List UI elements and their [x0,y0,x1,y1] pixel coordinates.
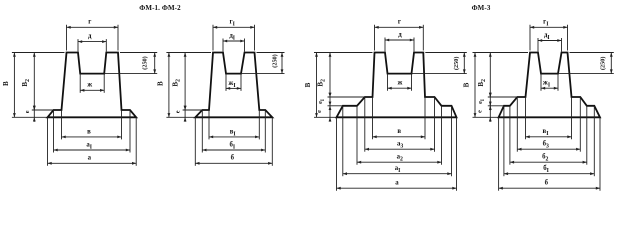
dimension ФМ-3-right В [474,53,477,118]
label е [316,110,323,113]
svg-text:е: е [175,110,182,113]
label В [2,81,10,86]
label (250) [600,57,607,70]
svg-text:а: а [395,180,399,187]
svg-text:В2: В2 [477,79,487,87]
label е [24,110,31,113]
svg-text:а: а [88,155,92,162]
extension lines [473,25,614,191]
dimension ФМ-3-left д [385,31,414,41]
dimension ФМ-3-right е [489,101,492,122]
dimension ФМ-3-right д [538,32,562,42]
label (250) [453,57,460,70]
dimension ФМ-2 ж [226,80,241,90]
dimension ФМ-3-right x1 [504,165,594,175]
svg-text:ж: ж [398,80,403,87]
dimension ФМ-1 В2 [33,53,36,111]
dimension ФМ-3-left x0 [337,180,457,190]
dimension ФМ-1 (250) [153,53,156,74]
svg-text:б2: б2 [542,154,548,163]
dimension ФМ-2 в [209,128,259,138]
label В2 [477,79,487,87]
label е [477,110,484,113]
svg-text:г: г [398,19,401,26]
label (250) [271,54,278,67]
svg-text:аI: аI [86,141,92,150]
svg-text:В: В [156,81,164,86]
dimension ФМ-3-left ж [388,80,412,90]
dimension ФМ-1 mid [54,141,131,151]
svg-text:д: д [398,31,402,38]
label (250) [142,56,149,69]
svg-text:вI: вI [543,128,550,137]
label В [463,82,471,87]
svg-text:гI: гI [543,19,549,28]
label В [156,81,164,86]
extension lines [314,25,467,191]
svg-text:В: В [2,81,10,86]
label В2 [21,79,31,87]
dimension ФМ-3-right г [530,19,568,29]
dimension ФМ-2 В2 [184,53,187,111]
dimension ФМ-2 В [168,53,171,118]
dimension ФМ-1 в [62,128,122,138]
dimension ФМ-3-left x1 [343,165,452,175]
label е [175,110,182,113]
dimension ФМ-3-right x0 [499,180,600,190]
dimension ФМ-3-left е [329,101,332,122]
dimension ФМ-2 (250) [281,53,284,74]
svg-text:В2: В2 [21,79,31,87]
svg-text:еI: еI [317,99,326,104]
svg-text:бI: бI [229,141,235,150]
svg-text:гI: гI [230,19,236,28]
extension lines [166,25,284,166]
svg-text:ж: ж [87,82,92,89]
foundation ФМ-2 outline [195,53,272,118]
svg-text:В: В [463,82,471,87]
extension lines [12,25,157,166]
dimension ФМ-3-left (250) [463,53,466,74]
foundation ФМ-3-left outline [337,53,457,118]
svg-text:В2: В2 [172,79,182,87]
label В2 [317,79,327,87]
svg-text:дI: дI [229,32,235,41]
dimension ФМ-2 е [184,106,187,122]
dimension ФМ-1 В [13,53,16,118]
dimension ФМ-3-left В2 [329,53,332,98]
svg-text:б: б [231,155,235,162]
svg-text:б3: б3 [543,141,549,150]
dimension ФМ-3-right x2 [510,154,587,164]
svg-text:ФМ-3: ФМ-3 [472,4,491,12]
svg-text:в: в [87,128,91,135]
dimension ФМ-2 а [195,155,272,165]
dimension ФМ-1 е [33,106,36,122]
dimension ФМ-2 mid [202,141,265,151]
svg-text:(250): (250) [453,57,460,70]
svg-text:(250): (250) [142,56,149,69]
svg-text:В2: В2 [317,79,327,87]
svg-text:(250): (250) [600,57,607,70]
foundation ФМ-1 outline [48,53,137,118]
svg-text:дI: дI [544,32,550,41]
svg-text:аI: аI [395,165,401,174]
svg-text:бI: бI [543,165,549,174]
svg-text:еI: еI [477,99,486,104]
label В2 [172,79,182,87]
svg-text:ФМ-1. ФМ-2: ФМ-1. ФМ-2 [139,4,181,12]
dimension ФМ-3-right (250) [610,53,613,74]
svg-text:д: д [88,33,92,40]
dimension ФМ-2 г [213,19,255,29]
label В [304,82,312,87]
foundation ФМ-3-right outline [499,53,600,118]
svg-text:а2: а2 [397,154,403,163]
label е1 [317,99,326,104]
dimension ФМ-1 г [67,19,119,29]
svg-text:е: е [316,110,323,113]
dimension ФМ-3-left г [375,19,424,29]
svg-text:в: в [397,128,401,135]
dimension ФМ-3-right е1 [489,93,492,111]
dimension ФМ-3-right x3 [517,141,580,151]
dimension ФМ-1 д [78,33,106,43]
dimension ФМ-1 а [48,155,137,165]
svg-text:е: е [477,110,484,113]
dimension ФМ-3-right в [526,128,572,138]
dimension ФМ-1 ж [80,82,104,92]
dimension ФМ-3-right ж [541,80,558,90]
dimension ФМ-3-left в [373,128,426,138]
svg-text:вI: вI [230,128,237,137]
svg-text:е: е [24,110,31,113]
svg-text:(250): (250) [271,54,278,67]
dimension ФМ-3-left е1 [329,93,332,111]
svg-text:г: г [88,19,91,26]
label е1 [477,99,486,104]
dimension ФМ-3-left x2 [357,154,442,164]
svg-text:В: В [304,82,312,87]
dimension ФМ-3-left x3 [365,141,435,151]
dimension ФМ-3-right В2 [489,53,492,98]
dimension ФМ-3-left В [315,53,318,118]
svg-text:б: б [545,180,549,187]
svg-text:а3: а3 [397,141,403,150]
dimension ФМ-2 д [223,32,245,42]
